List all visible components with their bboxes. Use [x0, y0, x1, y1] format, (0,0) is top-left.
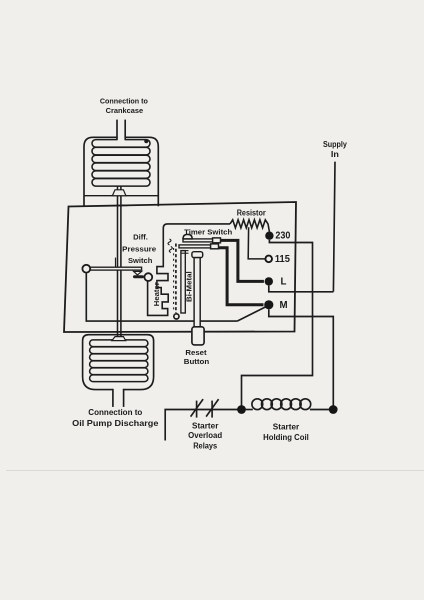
bi-metal strip — [181, 251, 185, 313]
thick wire to M — [217, 248, 264, 305]
svg-text:Timer Switch: Timer Switch — [184, 227, 232, 236]
upper bellows plate — [84, 195, 158, 197]
terminal M — [264, 300, 273, 309]
upper rod collar — [112, 190, 126, 196]
label: supply in — [323, 140, 348, 159]
thick wire to L — [219, 240, 264, 281]
svg-text:Button: Button — [184, 357, 210, 366]
svg-text:Reset: Reset — [185, 348, 207, 357]
svg-text:Starter: Starter — [192, 422, 218, 431]
supply in wire — [333, 162, 335, 292]
label: reset button — [184, 348, 210, 366]
crankcase pipe — [117, 120, 125, 141]
diff pressure switch pivot — [115, 258, 117, 268]
winding top hooks — [168, 239, 172, 253]
lower bellows coils — [90, 340, 148, 382]
arm bracket marks — [181, 251, 189, 254]
actuator rod — [118, 186, 121, 337]
junction dot right — [329, 405, 338, 414]
contact wedge — [134, 271, 142, 275]
overload relay contact 2 — [206, 399, 219, 418]
svg-text:Starter: Starter — [273, 423, 299, 432]
dot artifact in upper bellows — [144, 139, 148, 143]
terminal 115 — [265, 256, 272, 263]
label: connection to crankcase — [100, 96, 148, 115]
ball 2 — [144, 273, 152, 281]
svg-text:Oil Pump Discharge: Oil Pump Discharge — [72, 419, 159, 428]
upper bellows coils — [92, 140, 150, 187]
scan artifact line — [6, 470, 424, 472]
overload relay wire — [165, 410, 238, 441]
timer switch lower arm — [179, 245, 212, 248]
svg-text:Bi-Metal: Bi-Metal — [185, 271, 194, 302]
svg-text:Overload: Overload — [188, 431, 222, 440]
main housing box — [64, 202, 296, 332]
upper contact block — [213, 238, 221, 243]
115V tap wire — [248, 227, 265, 259]
holding coil loops — [245, 399, 329, 410]
heater supply wire with heater zigzag — [148, 224, 230, 316]
svg-text:230: 230 — [275, 230, 290, 241]
junction dot left — [237, 405, 246, 414]
svg-text:Heater: Heater — [152, 282, 161, 306]
svg-text:Switch: Switch — [128, 256, 153, 265]
svg-text:Diff.: Diff. — [133, 233, 148, 242]
ball 1 — [82, 265, 90, 273]
svg-text:Connection to: Connection to — [100, 96, 148, 105]
lower bellows housing — [83, 335, 154, 390]
svg-text:L: L — [281, 277, 287, 288]
svg-text:Crankcase: Crankcase — [106, 106, 144, 115]
heater winding dashes — [175, 244, 177, 314]
svg-text:Holding Coil: Holding Coil — [263, 433, 309, 442]
label: starter holding coil — [263, 423, 309, 442]
reset rod cap — [192, 252, 203, 258]
lower rod collar — [112, 337, 126, 341]
mushroom knob — [183, 234, 192, 239]
reset button body — [192, 327, 204, 345]
svg-text:Pressure: Pressure — [122, 245, 156, 254]
svg-text:In: In — [331, 150, 339, 159]
svg-text:Connection to: Connection to — [88, 408, 142, 417]
svg-text:Supply: Supply — [323, 140, 348, 149]
wire 230 to overload relays — [242, 240, 313, 406]
timer switch upper arm — [183, 239, 214, 242]
overload relay contact 1 — [191, 399, 204, 418]
upper bellows housing — [84, 137, 158, 206]
resistor R — [230, 220, 269, 232]
wire from ball contact — [86, 273, 237, 322]
wire M to holding coil — [269, 309, 334, 407]
svg-text:115: 115 — [275, 254, 291, 265]
svg-text:M: M — [280, 300, 288, 311]
diagonal wire to M — [237, 307, 265, 321]
winding end circle — [174, 314, 179, 319]
contact pad — [133, 275, 144, 278]
reset rod shaft — [194, 258, 200, 327]
terminal 230 — [265, 232, 273, 240]
terminal L — [265, 277, 273, 285]
lower contact block — [211, 244, 219, 249]
label: diff pressure switch — [122, 233, 156, 266]
label: connection to oil pump discharge — [72, 408, 159, 428]
oil pump pipe — [113, 388, 124, 407]
wire L to supply — [269, 286, 334, 292]
svg-text:Resistor: Resistor — [237, 208, 266, 217]
label: starter overload relays — [188, 422, 222, 451]
svg-text:Relays: Relays — [193, 441, 218, 450]
lever arm — [90, 267, 142, 270]
